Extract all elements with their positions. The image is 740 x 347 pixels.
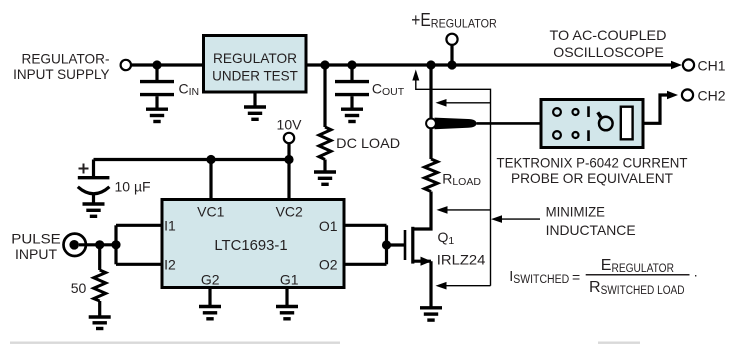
ground (10uF) (83, 204, 105, 216)
IC U2 LTC1693-1 (162, 200, 344, 288)
transistor Q1 channel bar (411, 227, 414, 264)
svg-text:VC1: VC1 (197, 203, 224, 219)
svg-text:VC2: VC2 (276, 203, 303, 219)
wire pulse input to I1/I2 (79, 225, 162, 264)
ground (G1) (276, 307, 298, 319)
current probe clamp (435, 118, 477, 130)
transistor Q1 source lead with arrow (413, 261, 431, 308)
label + polarity (79, 164, 89, 174)
wire RLOAD branch upper (429, 63, 432, 159)
transistor Q1 gate bar (404, 230, 407, 260)
wire G1 ground stub (285, 288, 288, 307)
svg-text:OSCILLOSCOPE: OSCILLOSCOPE (553, 44, 664, 60)
terminal CH2 with arrow (667, 91, 678, 100)
node pulse junctions (95, 240, 104, 249)
svg-text:G1: G1 (280, 272, 299, 288)
svg-text:TO AC-COUPLED: TO AC-COUPLED (550, 27, 667, 43)
svg-text:G2: G2 (201, 272, 220, 288)
svg-text:PULSE: PULSE (11, 230, 61, 246)
svg-text:CH1: CH1 (698, 57, 726, 73)
svg-text:REGULATOR: REGULATOR (213, 50, 297, 66)
wire gate from driver (344, 225, 404, 264)
svg-text:MINIMIZE: MINIMIZE (546, 203, 605, 219)
wire main output segment to CH1 (306, 63, 677, 66)
regulator box U1: REGULATOR UNDER TEST (204, 36, 307, 93)
connector pulse input (63, 234, 85, 256)
svg-text:=: = (572, 269, 580, 285)
svg-text:50: 50 (71, 280, 87, 296)
ground (regulator) (244, 107, 266, 119)
node gate junction (382, 240, 391, 249)
svg-text:I2: I2 (164, 257, 176, 273)
svg-text:INDUCTANCE: INDUCTANCE (546, 222, 636, 238)
callout minimize inductance lines (416, 80, 540, 286)
transistor Q1 drain lead (413, 192, 431, 230)
resistor DC LOAD (323, 63, 326, 172)
svg-text:REGULATOR-: REGULATOR- (22, 50, 110, 66)
resistor 50 (98, 245, 101, 317)
cropped caption remnant at bottom (10, 342, 340, 344)
wire CH2 connection (643, 95, 668, 123)
wire regulator ground stub (253, 92, 256, 107)
svg-text:.: . (694, 264, 698, 280)
svg-text:PROBE OR EQUIVALENT: PROBE OR EQUIVALENT (511, 170, 673, 186)
wire 10V rail (94, 143, 290, 204)
wire main input segment (131, 63, 204, 66)
ground (CIN) (146, 109, 168, 121)
svg-text:TEKTRONIX P-6042 CURRENT: TEKTRONIX P-6042 CURRENT (497, 154, 688, 170)
svg-text:UNDER TEST: UNDER TEST (212, 67, 298, 83)
terminal 10V (284, 133, 294, 143)
ground (G2) (199, 307, 221, 319)
svg-text:INPUT SUPPLY: INPUT SUPPLY (13, 66, 110, 82)
wire +E regulator stub (450, 45, 453, 65)
svg-text:DC LOAD: DC LOAD (336, 135, 400, 151)
terminal regulator input (121, 60, 131, 70)
ground (DC LOAD) (314, 172, 336, 184)
svg-text:O1: O1 (319, 218, 338, 234)
svg-text:INPUT: INPUT (15, 246, 57, 262)
terminal +E regulator (446, 34, 457, 45)
svg-text:10 µF: 10 µF (115, 178, 151, 194)
knob and connectors inside instrument (553, 108, 561, 116)
svg-text:I1: I1 (164, 217, 176, 233)
terminal CH1 with arrow (671, 61, 682, 70)
ground (COUT) (341, 109, 363, 121)
instrument box: Tektronix P-6042 (541, 100, 643, 148)
capacitor COUT (350, 63, 353, 109)
resistor RLOAD (425, 159, 438, 192)
capacitor 10uF polarized (78, 176, 110, 179)
svg-text:CH2: CH2 (698, 87, 726, 103)
ground (Q1 source) (420, 308, 442, 320)
node rail junctions (206, 155, 215, 164)
node junction dots on main wire (152, 60, 161, 69)
capacitor CIN (155, 63, 158, 109)
callout arrowheads (412, 70, 419, 81)
svg-text:O2: O2 (319, 257, 338, 273)
svg-text:10V: 10V (277, 117, 303, 133)
wire G2 ground stub (208, 288, 211, 307)
svg-text:LTC1693-1: LTC1693-1 (214, 237, 287, 254)
ground (50) (89, 317, 111, 329)
svg-text:IRLZ24: IRLZ24 (437, 251, 486, 267)
